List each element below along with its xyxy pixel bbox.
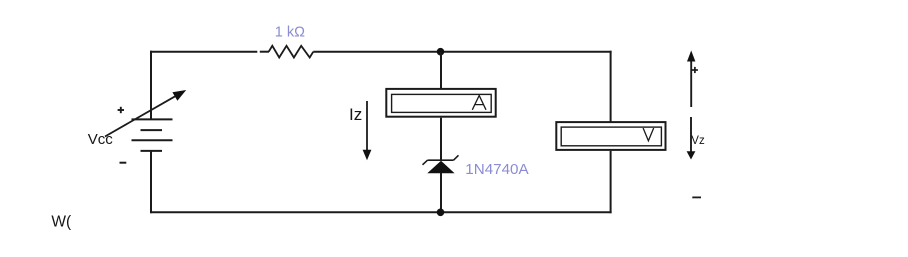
node junction top [437, 48, 445, 56]
wire right rail lower [610, 151, 612, 213]
minus sign of source [120, 162, 127, 164]
current arrow Iz [363, 101, 372, 160]
ammeter letter A [472, 96, 486, 110]
voltage arrow Vz up [687, 51, 695, 108]
voltmeter U2 [556, 122, 665, 150]
svg-text:1N4740A: 1N4740A [465, 161, 529, 178]
voltage arrow Vz down [687, 117, 696, 160]
wire bottom rail [150, 211, 612, 213]
plus sign of source [118, 107, 124, 113]
wire left rail lower [150, 151, 152, 213]
svg-text:Vz: Vz [691, 135, 705, 147]
battery source Vcc (variable) [132, 119, 173, 150]
wire top rail right segment [313, 51, 611, 53]
node junction bottom [437, 209, 445, 217]
wire right rail upper [610, 51, 612, 122]
wire left rail upper [150, 51, 152, 120]
wire middle branch between ammeter and zener [440, 118, 442, 161]
svg-text:W(: W( [51, 214, 72, 231]
zener diode D1 [423, 155, 459, 173]
resistor R1 [269, 46, 314, 58]
variable-source arrow [105, 90, 186, 137]
wire middle branch lower [440, 173, 442, 213]
wire middle branch upper [440, 52, 442, 89]
svg-text:Vcc: Vcc [88, 131, 114, 148]
plus sign of Vz [692, 67, 698, 73]
ammeter U1 [386, 89, 495, 117]
svg-text:1 kΩ: 1 kΩ [275, 25, 305, 41]
minus sign of Vz [692, 196, 701, 198]
wire top rail short stub before resistor [260, 51, 269, 53]
voltmeter letter V [643, 128, 654, 141]
wire top rail left segment [150, 51, 257, 53]
svg-text:Iz: Iz [349, 105, 362, 124]
